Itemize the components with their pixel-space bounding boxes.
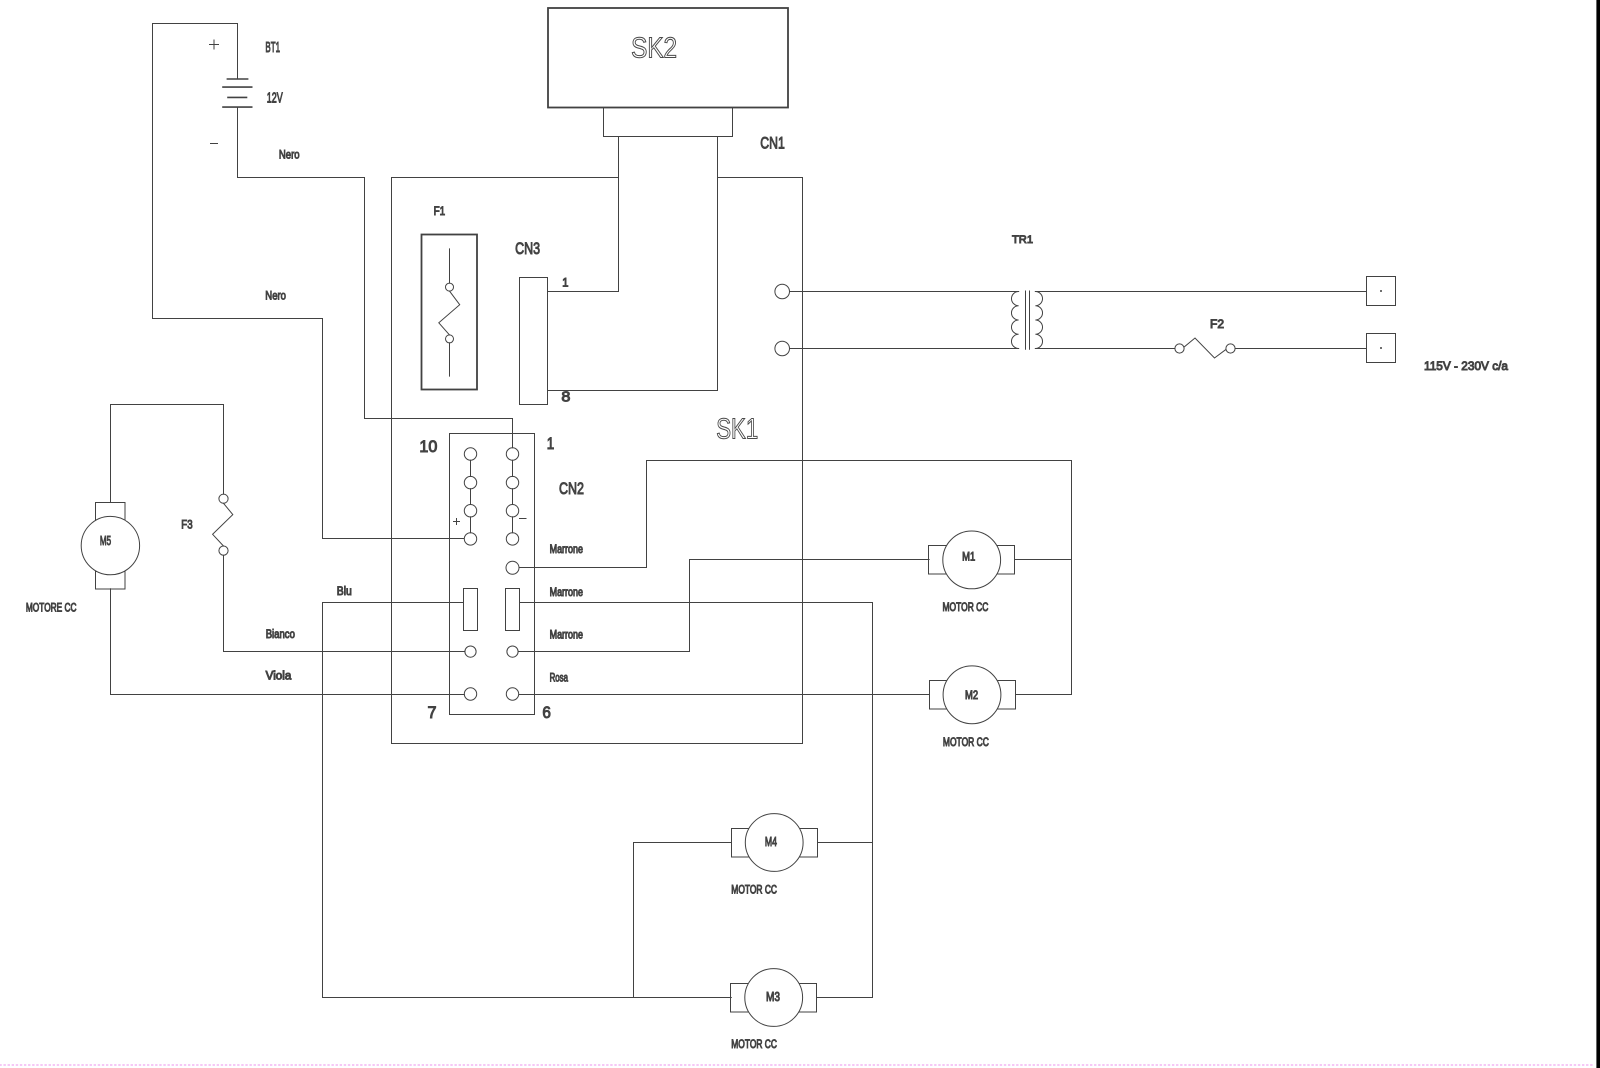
- svg-text:CN1: CN1: [760, 134, 785, 153]
- wire M5 bottom: [110, 589, 112, 695]
- scrollbar black bar: [1596, 0, 1600, 1068]
- svg-text:115V - 230V c/a: 115V - 230V c/a: [1424, 359, 1508, 373]
- wire Blu CN2 slot to M3 M4 left: [323, 603, 464, 998]
- svg-text:MOTOR CC: MOTOR CC: [943, 602, 989, 614]
- fuse F3: [213, 494, 233, 555]
- terminal block top: [1367, 277, 1396, 306]
- svg-text:Rosa: Rosa: [550, 673, 569, 685]
- svg-text:Blu: Blu: [337, 586, 352, 598]
- wire CN1 right pin: [717, 137, 719, 391]
- wire M1 right to bus: [1015, 559, 1072, 561]
- wire Bianco F3 to CN2: [224, 651, 465, 653]
- TR1 core: [1026, 291, 1030, 349]
- fuse F1: [422, 204, 478, 389]
- wire Viola M5 to CN2: [111, 694, 465, 696]
- svg-text:M1: M1: [962, 550, 975, 563]
- svg-text:MOTOR CC: MOTOR CC: [943, 737, 989, 749]
- svg-text:6: 6: [542, 704, 551, 722]
- wire primary top: [790, 291, 1019, 293]
- svg-text:M2: M2: [965, 689, 978, 702]
- wire Nero battery minus to CN2 pin1: [238, 108, 513, 448]
- svg-text:SK2: SK2: [631, 32, 677, 64]
- CN2 pin row4 left: [464, 688, 476, 700]
- svg-text:7: 7: [428, 704, 437, 722]
- wire Marrone 1 CN2 to motor bus: [519, 461, 1072, 568]
- wire M3 right to bus: [817, 997, 873, 999]
- label +: [210, 40, 219, 49]
- wire CN3 pin1 to CN1: [548, 291, 619, 293]
- svg-text:Marrone: Marrone: [550, 630, 583, 642]
- wire M5 top to F3: [111, 405, 224, 503]
- CN2 left pin chain: [464, 448, 476, 460]
- CN2 pin row3 right: [507, 646, 518, 657]
- wire battery plus top: [153, 24, 238, 79]
- svg-text:M5: M5: [100, 533, 111, 548]
- CN2 pin marrone1: [506, 561, 519, 574]
- wire Marrone 3 CN2 to M1: [519, 560, 930, 652]
- svg-text:Marrone: Marrone: [550, 544, 583, 556]
- page margin dotted line: [0, 1064, 1594, 1066]
- box SK2: [548, 8, 788, 108]
- wire CN1 left pin: [618, 137, 620, 292]
- label minus: [211, 143, 218, 145]
- CN2 right pin chain: [506, 448, 518, 460]
- CN2 pin row3 left: [465, 646, 476, 657]
- wire bus M3 M4 right: [872, 603, 874, 998]
- wire primary bottom: [790, 348, 1019, 350]
- svg-text:MOTOR CC: MOTOR CC: [731, 884, 777, 896]
- node terminal top on SK1: [775, 284, 790, 299]
- motor M3: [731, 969, 817, 1027]
- svg-text:Nero: Nero: [265, 289, 286, 303]
- connector CN3: [515, 239, 717, 406]
- svg-text:CN3: CN3: [515, 239, 540, 258]
- CN3 box: [520, 278, 548, 405]
- F1 element: [449, 249, 451, 283]
- F1 box: [422, 235, 478, 390]
- label plus: [454, 519, 460, 525]
- svg-text:10: 10: [419, 438, 437, 456]
- wire Marrone 2 CN2 slot to M3 M4 bus: [520, 602, 873, 604]
- svg-text:Viola: Viola: [266, 670, 292, 682]
- svg-text:Marrone: Marrone: [550, 587, 583, 599]
- CN2 pin row4 right: [506, 688, 518, 700]
- svg-text:8: 8: [561, 390, 570, 406]
- svg-text:SK1: SK1: [716, 414, 758, 446]
- svg-text:Bianco: Bianco: [266, 629, 295, 641]
- TR1 primary winding: [1011, 292, 1018, 349]
- svg-text:F2: F2: [1210, 318, 1224, 331]
- wire M3 left Blu bottom: [323, 997, 732, 999]
- svg-text:CN2: CN2: [559, 479, 584, 498]
- transformer TR1: [1011, 234, 1042, 349]
- box SK1: [392, 178, 803, 744]
- wire right bus M1 M2: [1071, 461, 1073, 695]
- svg-text:M4: M4: [765, 834, 777, 849]
- wire M4 left branch: [634, 843, 732, 998]
- svg-text:Nero: Nero: [279, 147, 300, 161]
- battery BT1 plates: [223, 79, 252, 107]
- svg-text:BT1: BT1: [265, 39, 280, 56]
- CN2 slot right: [506, 589, 520, 631]
- wire F2 to terminal: [1235, 348, 1366, 350]
- svg-text:F1: F1: [434, 204, 446, 218]
- label minus: [520, 518, 527, 520]
- wire Nero battery plus to CN2 plus pin: [153, 24, 465, 539]
- wire secondary bottom to F2: [1035, 348, 1175, 350]
- svg-text:M3: M3: [766, 989, 780, 1004]
- CN2 slot left: [464, 589, 478, 631]
- svg-text:1: 1: [547, 435, 555, 453]
- svg-text:1: 1: [562, 275, 568, 289]
- motor M2: [930, 666, 1016, 724]
- connector CN2: [419, 434, 584, 723]
- svg-text:TR1: TR1: [1012, 234, 1033, 246]
- motor M5: [81, 503, 139, 590]
- svg-text:12V: 12V: [267, 89, 283, 106]
- terminal block bottom: [1367, 334, 1396, 363]
- wire secondary top: [1035, 291, 1366, 293]
- wire M4 right to bus: [818, 842, 873, 844]
- node terminal bottom on SK1: [775, 341, 790, 356]
- wire Rosa CN2 to M2: [519, 694, 929, 696]
- TR1 secondary winding: [1035, 292, 1042, 349]
- connector CN1 flange: [604, 108, 733, 137]
- battery BT1: [153, 24, 283, 144]
- motor M4: [732, 814, 818, 872]
- wire M2 right to bus: [1016, 694, 1072, 696]
- svg-text:MOTOR CC: MOTOR CC: [731, 1039, 777, 1051]
- fuse F2: [1175, 338, 1235, 358]
- CN2 box: [450, 434, 535, 715]
- wire F3 bottom: [223, 555, 225, 651]
- svg-text:F3: F3: [181, 517, 192, 531]
- motor M1: [929, 531, 1015, 589]
- svg-text:MOTORE CC: MOTORE CC: [26, 602, 77, 614]
- wire CN3 pin8 to CN1: [548, 390, 718, 392]
